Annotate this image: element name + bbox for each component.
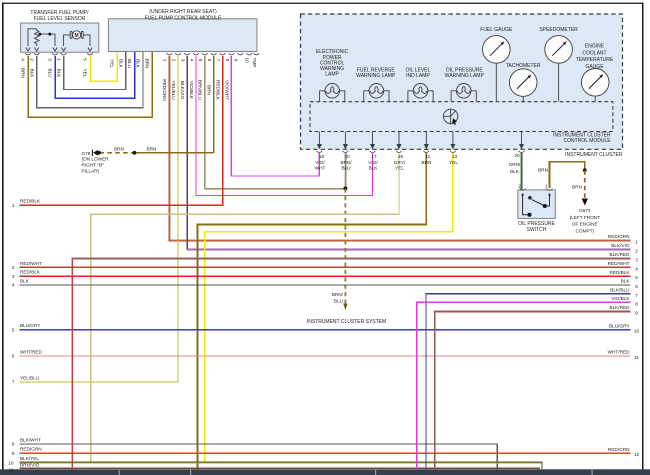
svg-text:YEL: YEL [449, 160, 458, 165]
svg-text:2: 2 [171, 59, 176, 62]
svg-text:RED/BLK: RED/BLK [20, 199, 41, 204]
svg-text:BRN: BRN [572, 184, 582, 189]
svg-text:BLU/GRY: BLU/GRY [20, 323, 41, 328]
svg-text:11: 11 [634, 355, 639, 360]
svg-text:RED/GRN: RED/GRN [162, 79, 167, 101]
svg-text:YEL: YEL [83, 69, 88, 78]
ground wire dashed BRN to G78 [100, 152, 135, 154]
svg-text:(ON LOWER: (ON LOWER [82, 156, 110, 161]
fuel reserve warning lamp [364, 84, 389, 102]
svg-text:TEMPERATURE: TEMPERATURE [576, 57, 614, 63]
svg-text:9: 9 [635, 311, 638, 316]
svg-text:BLK/VIO: BLK/VIO [611, 243, 630, 248]
svg-text:1: 1 [545, 183, 548, 188]
svg-text:INSTRUMENT CLUSTER SYSTEM: INSTRUMENT CLUSTER SYSTEM [307, 319, 386, 325]
svg-text:TMP: TMP [252, 58, 257, 68]
ground G78 symbol [97, 151, 101, 155]
page frame top border [2, 3, 643, 4]
motor M symbol [64, 32, 90, 46]
svg-text:VIO/BLK: VIO/BLK [611, 296, 630, 301]
svg-text:17: 17 [371, 154, 377, 159]
svg-text:COOLANT: COOLANT [582, 50, 606, 56]
wire module pin8 VIO/WHT to cluster pin18 [231, 56, 319, 176]
wire YEL sensor pin5 to module [90, 52, 117, 81]
module pin wire color labels [162, 79, 229, 101]
svg-text:GRY/: GRY/ [394, 160, 406, 165]
svg-text:BRN/VIO: BRN/VIO [20, 463, 40, 468]
fuel level sensor resistor R (variable) [28, 29, 55, 46]
sensor pin number labels [21, 58, 88, 61]
wire BLU sensor pin3 to module [55, 52, 135, 98]
svg-text:BLK/YEL: BLK/YEL [20, 456, 39, 461]
sensor wire color labels [21, 68, 88, 78]
svg-text:RED/GRN: RED/GRN [608, 234, 630, 239]
page frame left border [2, 3, 4, 470]
cluster internal meter symbol [443, 109, 458, 125]
cluster connector cups [317, 151, 525, 153]
svg-text:BRN: BRN [422, 160, 432, 165]
transfer fuel pump / fuel level sensor box [21, 23, 99, 52]
wire cluster pin20 GRN/BLK to oil pressure switch [521, 153, 522, 190]
wire cluster pin30 BRN/BLU down to junction [344, 153, 347, 189]
wire BLK sensor pin1 to module [64, 52, 126, 90]
svg-text:BLK/WHT: BLK/WHT [20, 438, 41, 443]
sensor connector cups [25, 53, 93, 55]
svg-text:BLK: BLK [118, 59, 123, 69]
svg-text:(LEFT FRONT: (LEFT FRONT [570, 215, 601, 220]
svg-text:4: 4 [189, 59, 194, 62]
switch internal contacts [521, 193, 551, 215]
svg-text:FUEL LEVEL SENSOR: FUEL LEVEL SENSOR [34, 16, 86, 22]
svg-text:6: 6 [12, 354, 15, 359]
svg-text:COMPT): COMPT) [576, 228, 595, 233]
svg-text:BRN: BRN [538, 168, 548, 173]
svg-text:G78: G78 [82, 151, 91, 156]
svg-text:3: 3 [181, 59, 186, 62]
svg-text:12: 12 [425, 154, 431, 159]
svg-text:8: 8 [635, 301, 638, 306]
svg-text:5: 5 [198, 59, 203, 62]
svg-text:BLU: BLU [334, 299, 344, 304]
svg-text:BRN: BRN [145, 59, 150, 69]
junction dot on ground wire [133, 151, 137, 155]
svg-text:5: 5 [635, 275, 638, 280]
wire cluster pin26 GRY/YEL long run to BLK/YEL [91, 153, 399, 463]
ground G673 symbol [582, 199, 588, 206]
svg-text:VIO/: VIO/ [315, 160, 325, 165]
svg-text:10: 10 [8, 460, 14, 465]
svg-text:4: 4 [12, 283, 15, 288]
instrument cluster box [301, 14, 623, 149]
svg-text:1: 1 [56, 58, 61, 61]
ground wire solid BRN [134, 152, 214, 154]
wire module pin6 BRN to ground line [213, 56, 215, 153]
svg-text:BLK: BLK [510, 169, 520, 174]
svg-text:1: 1 [163, 59, 168, 62]
wire BRN oil pressure switch pin1 to G673 [550, 162, 585, 188]
svg-text:10: 10 [634, 329, 640, 334]
wire cluster pin12 BRN long run to bottom [198, 153, 427, 469]
fuel pump control module box [108, 19, 257, 52]
svg-text:TACHOMETER: TACHOMETER [506, 63, 541, 69]
svg-text:WHT: WHT [315, 166, 326, 171]
wire module pin5 BRN/BLU to junction [204, 56, 345, 189]
svg-text:VIO/BLK: VIO/BLK [189, 81, 194, 100]
page frame right border [642, 3, 644, 470]
svg-text:7: 7 [12, 380, 15, 385]
svg-text:CONTROL MODULE: CONTROL MODULE [564, 138, 612, 144]
svg-text:WHT/RED: WHT/RED [608, 350, 630, 355]
svg-text:GRN/: GRN/ [509, 162, 521, 167]
svg-text:5: 5 [83, 58, 88, 61]
dashed BRN/BLU drop to instrument cluster system [344, 189, 346, 305]
svg-text:BLU: BLU [48, 68, 53, 78]
svg-text:RED/BLK: RED/BLK [20, 270, 41, 275]
svg-text:RED/GRN: RED/GRN [20, 447, 42, 452]
wiper junction dots [38, 33, 41, 36]
instrument cluster control module box [310, 102, 613, 132]
sensor pin exit arrows [26, 48, 92, 52]
svg-text:13: 13 [452, 154, 458, 159]
switch connector cups [520, 189, 553, 191]
svg-text:OF ENGINE: OF ENGINE [572, 222, 598, 227]
svg-text:18: 18 [319, 154, 325, 159]
module pin number labels 1-10 TMP [163, 58, 257, 68]
svg-text:YEL/BLU: YEL/BLU [171, 80, 176, 100]
svg-text:VIO/: VIO/ [368, 160, 378, 165]
svg-text:BLK: BLK [56, 69, 61, 79]
wire module pin7 RED/BLK to left edge 1 [20, 56, 223, 205]
svg-text:3: 3 [635, 257, 638, 262]
wire BRN sensor pin4 to module [28, 52, 152, 117]
svg-text:WARNING LAMP: WARNING LAMP [356, 73, 396, 79]
oil level ind lamp [408, 84, 433, 102]
svg-text:RED/BLK: RED/BLK [216, 80, 221, 101]
svg-text:7: 7 [216, 59, 221, 62]
svg-text:BLU: BLU [341, 166, 351, 171]
svg-text:BRN: BRN [207, 85, 212, 95]
svg-text:BLK/RED: BLK/RED [609, 305, 630, 310]
svg-text:ENGINE: ENGINE [585, 44, 605, 50]
svg-text:4: 4 [635, 266, 638, 271]
svg-text:2: 2 [12, 265, 15, 270]
svg-text:BRN: BRN [147, 146, 157, 151]
svg-text:5: 5 [12, 327, 15, 332]
cluster internal pin arrows [318, 132, 524, 149]
svg-text:3: 3 [48, 58, 53, 61]
svg-text:M: M [75, 33, 79, 39]
svg-text:BRN: BRN [114, 146, 124, 151]
svg-text:3: 3 [12, 274, 15, 279]
svg-text:FUEL GAUGE: FUEL GAUGE [480, 27, 513, 33]
oil pressure warning lamp [451, 84, 476, 102]
svg-text:SWITCH: SWITCH [527, 227, 547, 233]
svg-text:LAMP: LAMP [325, 72, 339, 78]
wire module pin1 RED/GRN to right edge 1 [169, 56, 631, 241]
svg-text:10: 10 [245, 58, 250, 64]
svg-text:YEL: YEL [395, 166, 404, 171]
svg-text:BLK/RED: BLK/RED [609, 252, 630, 257]
wire cluster pin13 YEL long run to BLK/YEL [205, 153, 453, 463]
svg-text:G673: G673 [579, 208, 591, 213]
svg-text:BLU: BLU [127, 59, 132, 69]
svg-text:BRN/: BRN/ [332, 292, 344, 297]
svg-text:(UNDER RIGHT REAR SEAT): (UNDER RIGHT REAR SEAT) [149, 9, 217, 15]
svg-text:11: 11 [9, 468, 14, 473]
svg-text:RIGHT "B": RIGHT "B" [82, 162, 105, 167]
bottom toolbar bar [0, 469, 650, 475]
svg-text:BLK: BLK [369, 166, 379, 171]
junction node BRN/BLU [343, 187, 347, 191]
svg-text:4: 4 [21, 58, 26, 61]
svg-text:1: 1 [635, 240, 638, 245]
svg-text:30: 30 [344, 154, 350, 159]
svg-text:BLK: BLK [29, 69, 34, 79]
svg-text:BLK/BLU: BLK/BLU [610, 287, 630, 292]
svg-text:8: 8 [225, 59, 230, 62]
svg-text:2: 2 [29, 58, 34, 61]
mouse cursor artifact [452, 118, 457, 125]
oil pressure switch box [518, 190, 555, 219]
svg-text:SPEEDOMETER: SPEEDOMETER [539, 27, 578, 33]
wire module pin2 YEL/BLU to left edge 7 [20, 56, 178, 382]
svg-text:8: 8 [12, 442, 15, 447]
svg-text:INSTRUMENT CLUSTER: INSTRUMENT CLUSTER [565, 152, 623, 158]
svg-text:7: 7 [635, 293, 638, 298]
svg-text:RED/GRN: RED/GRN [608, 447, 630, 452]
svg-text:12: 12 [634, 452, 640, 457]
svg-text:RED/BLK: RED/BLK [609, 270, 630, 275]
wire BLK sensor pin2 to module [37, 52, 143, 108]
svg-text:20: 20 [514, 153, 520, 158]
svg-text:YEL/BLU: YEL/BLU [20, 376, 40, 381]
module left pin labels [110, 59, 150, 69]
svg-text:9: 9 [234, 59, 239, 62]
svg-text:2: 2 [635, 248, 638, 253]
svg-text:IND LAMP: IND LAMP [406, 73, 430, 79]
svg-text:BRN: BRN [21, 68, 26, 78]
svg-text:BLK: BLK [621, 279, 631, 284]
svg-text:BRN/: BRN/ [340, 160, 352, 165]
svg-text:RED/WHT: RED/WHT [20, 261, 42, 266]
svg-text:BLK/VIO: BLK/VIO [180, 81, 185, 100]
svg-text:BLK: BLK [136, 59, 141, 69]
svg-text:VIO/WHT: VIO/WHT [224, 80, 229, 100]
svg-text:2: 2 [518, 183, 521, 188]
svg-text:26: 26 [398, 154, 404, 159]
svg-text:6: 6 [635, 284, 638, 289]
module connector cups pins 1-10,TMP [167, 53, 260, 55]
wire module pin4 VIO/BLK to cluster pin17 [196, 56, 373, 196]
svg-text:1: 1 [12, 203, 15, 208]
svg-text:YEL: YEL [110, 59, 115, 68]
svg-text:FUEL PUMP CONTROL MODULE: FUEL PUMP CONTROL MODULE [145, 15, 222, 21]
svg-text:9: 9 [12, 451, 15, 456]
svg-text:BLU/GRY: BLU/GRY [609, 323, 630, 328]
wire module pin3 BLK/VIO to right edge 2 [187, 56, 630, 250]
svg-text:BLK: BLK [20, 279, 30, 284]
svg-text:WHT/RED: WHT/RED [20, 350, 42, 355]
svg-text:WARNING LAMP: WARNING LAMP [445, 73, 485, 79]
cluster pin labels [315, 153, 521, 174]
svg-text:RED/WHT: RED/WHT [608, 261, 630, 266]
svg-text:6: 6 [207, 59, 212, 62]
electronic power control warning lamp [320, 84, 345, 102]
svg-text:BRN/BLU: BRN/BLU [198, 80, 203, 101]
svg-text:PILLAR): PILLAR) [82, 168, 100, 173]
